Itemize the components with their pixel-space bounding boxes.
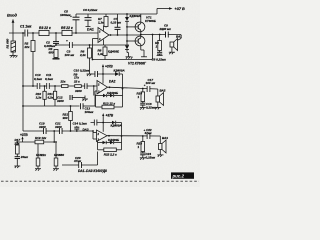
resistor R3 — [39, 26, 51, 36]
resistor R20 — [53, 141, 64, 171]
capacitor C7 — [111, 14, 122, 36]
svg-text:0,33 мк: 0,33 мк — [111, 21, 122, 25]
svg-text:С1 1мк: С1 1мк — [20, 25, 32, 29]
wire DA2 output — [108, 87, 158, 89]
capacitor C17 — [144, 78, 156, 92]
svg-text:0,22мк: 0,22мк — [146, 105, 156, 109]
svg-text:3300: 3300 — [39, 125, 46, 129]
ground — [10, 56, 18, 58]
svg-text:КД409Б: КД409Б — [108, 50, 119, 54]
resistor R6 — [79, 45, 92, 74]
resistor R14 — [137, 88, 145, 104]
svg-text:3300: 3300 — [55, 125, 62, 129]
wire lower top-channel line — [56, 44, 129, 46]
capacitor C5 — [60, 10, 80, 34]
wire HF supply — [91, 113, 114, 123]
svg-text:0,1мк: 0,1мк — [34, 77, 42, 81]
svg-text:22 к: 22 к — [73, 79, 80, 83]
capacitor C15 — [95, 71, 97, 77]
resistor R2 — [24, 33, 36, 52]
diode VD1 — [125, 13, 141, 45]
resistor R9a — [60, 79, 69, 87]
svg-text:+: + — [66, 39, 68, 43]
capacitor C12 — [57, 95, 85, 103]
svg-text:2,2к: 2,2к — [79, 53, 86, 57]
svg-text:КД409А: КД409А — [114, 68, 125, 72]
svg-text:3,3к: 3,3к — [36, 95, 42, 99]
svg-text:КД409А: КД409А — [130, 14, 141, 18]
svg-text:R1 680: R1 680 — [6, 38, 10, 48]
svg-text:DA3: DA3 — [83, 128, 89, 132]
svg-text:ВА3: ВА3 — [162, 136, 168, 140]
wire HF line y131 — [23, 130, 93, 132]
svg-text:R5 22 к: R5 22 к — [61, 26, 73, 30]
dashed separator — [1, 180, 199, 182]
svg-text:С8 0,22мк: С8 0,22мк — [152, 58, 167, 62]
svg-text:680: 680 — [59, 153, 64, 157]
capacitor C6 — [83, 8, 98, 27]
svg-text:3300: 3300 — [75, 89, 82, 93]
svg-text:0,15мк: 0,15мк — [146, 155, 156, 159]
resistor R21 — [63, 105, 73, 131]
svg-text:R13 12 к: R13 12 к — [103, 101, 116, 105]
svg-text:6,2к: 6,2к — [48, 95, 54, 99]
capacitor C14 — [73, 122, 88, 132]
svg-text:R3 22 к: R3 22 к — [39, 26, 51, 30]
power +37V bottom label — [20, 133, 28, 142]
capacitor C19 — [39, 122, 46, 135]
resistor R10 — [36, 85, 47, 106]
svg-text:VT2 КТ608Г: VT2 КТ608Г — [128, 62, 147, 66]
loudspeaker BA2 — [155, 89, 166, 110]
diode VD3 — [114, 68, 125, 95]
svg-text:+: + — [70, 14, 72, 18]
capacitor C18 — [14, 155, 28, 168]
capacitor C3 — [65, 39, 75, 58]
svg-text:20мк: 20мк — [20, 155, 29, 159]
op-amp DA1 — [87, 26, 109, 46]
svg-text:0,1мк: 0,1мк — [45, 77, 53, 81]
node output top channel — [140, 34, 142, 36]
power +37V arrow top — [157, 7, 185, 14]
svg-text:1,3к: 1,3к — [98, 21, 104, 25]
svg-text:22к: 22к — [60, 79, 66, 83]
svg-text:2200 мк: 2200 мк — [159, 27, 172, 31]
svg-text:рис.2: рис.2 — [172, 174, 185, 179]
svg-text:22к: 22к — [40, 153, 46, 157]
capacitor C13 — [81, 91, 98, 114]
wire main input line — [9, 32, 98, 34]
resistor R9b — [73, 79, 82, 93]
capacitor C2 — [44, 33, 59, 48]
capacitor C18b — [94, 120, 96, 126]
capacitor C22 — [144, 128, 153, 139]
capacitor C9 — [159, 24, 172, 38]
svg-text:390: 390 — [63, 116, 68, 120]
wire feedback tap — [93, 86, 95, 96]
svg-text:ВА2: ВА2 — [160, 89, 166, 93]
capacitor C20 — [62, 152, 98, 169]
svg-text:DA1–DA3 К140УД8: DA1–DA3 К140УД8 — [78, 169, 107, 173]
node labels mid — [74, 68, 90, 79]
node bases junctions — [126, 26, 128, 28]
svg-text:С6 0,22мк: С6 0,22мк — [83, 8, 98, 12]
op-amp DA2 — [97, 74, 116, 94]
resistor R1 — [6, 33, 16, 56]
svg-text:1,3к: 1,3к — [98, 52, 104, 56]
svg-text:С14 0,1мк: С14 0,1мк — [73, 122, 88, 126]
ground C12 — [82, 96, 88, 102]
svg-text:R22 2,2 к: R22 2,2 к — [104, 152, 117, 156]
capacitor C11 — [45, 73, 53, 89]
bias loop HF: diodes and R22 — [98, 138, 122, 156]
capacitor C10 — [34, 73, 42, 89]
capacitor C16 — [140, 102, 156, 110]
wire MF input line — [23, 85, 97, 87]
svg-text:R19 12к: R19 12к — [35, 136, 47, 140]
capacitor C mid series — [85, 83, 87, 89]
svg-text:КТ608Б: КТ608Б — [145, 19, 156, 23]
svg-text:+37 В: +37 В — [175, 7, 185, 11]
svg-text:47мк: 47мк — [144, 131, 153, 135]
resistor R5 — [61, 26, 73, 36]
resistor R8 — [98, 45, 108, 60]
wire vertical bus x33 — [32, 52, 34, 87]
svg-text:DA2: DA2 — [109, 80, 116, 84]
svg-text:100 мк: 100 мк — [65, 53, 75, 57]
bias loop MF: diodes and R13 — [96, 88, 124, 109]
svg-text:22к: 22к — [14, 142, 20, 146]
svg-text:100 мк: 100 мк — [146, 81, 156, 85]
svg-text:680: 680 — [49, 51, 54, 55]
svg-text:100мк: 100мк — [85, 110, 94, 114]
diode VD2 — [108, 46, 129, 54]
svg-text:22к: 22к — [24, 45, 30, 49]
op-amp DA3 — [97, 123, 108, 142]
svg-text:Вход: Вход — [7, 13, 17, 18]
resistor R11 — [48, 85, 57, 106]
svg-text:КД409А: КД409А — [111, 123, 122, 127]
wire DA1 output — [109, 34, 141, 36]
ground VD2 — [126, 53, 133, 59]
diode VD5 — [111, 121, 122, 143]
resistor R18 — [35, 144, 46, 171]
ground R6 — [87, 74, 93, 76]
wire HF to DA3 — [92, 131, 94, 139]
resistor R9 — [155, 34, 161, 53]
svg-text:+37В: +37В — [105, 65, 113, 69]
svg-text:+37В: +37В — [106, 114, 114, 118]
wire MF supply — [91, 64, 116, 75]
svg-text:КД409Б: КД409Б — [108, 138, 119, 142]
svg-text:DA1: DA1 — [87, 28, 94, 32]
ground — [53, 58, 60, 60]
ground VT2 emitter — [141, 50, 147, 57]
transistor VT1 — [127, 14, 156, 32]
junction dots main line — [22, 32, 24, 34]
wire bottom bus top channel — [93, 59, 153, 61]
wire output to C9 — [141, 34, 181, 36]
svg-text:3300: 3300 — [57, 99, 64, 103]
resistor R4 — [49, 47, 59, 59]
resistor R19 — [35, 136, 47, 144]
svg-text:ВА1: ВА1 — [176, 35, 182, 39]
resistor R23 — [137, 135, 145, 153]
resistor R17 — [14, 138, 21, 157]
svg-text:+37В: +37В — [20, 133, 28, 137]
capacitor C21 — [55, 122, 62, 135]
svg-text:КД409Б: КД409Б — [107, 91, 118, 95]
wire MF second line — [23, 105, 80, 107]
wire +37V rail — [76, 13, 157, 15]
wire vertical bus x23 — [22, 33, 24, 131]
loudspeaker BA1 — [169, 35, 182, 55]
svg-text:47мк: 47мк — [73, 159, 82, 163]
resistor R7 — [98, 14, 108, 28]
input terminal Вход — [12, 19, 15, 33]
capacitor C24 — [140, 152, 156, 160]
wire y142 — [17, 141, 54, 143]
figure label box — [171, 172, 194, 178]
capacitor C1 — [20, 25, 32, 37]
transistor VT2 — [127, 30, 145, 50]
wire DA3 output — [107, 135, 160, 137]
capacitor C8 — [152, 52, 167, 61]
loudspeaker BA3 — [157, 136, 168, 157]
